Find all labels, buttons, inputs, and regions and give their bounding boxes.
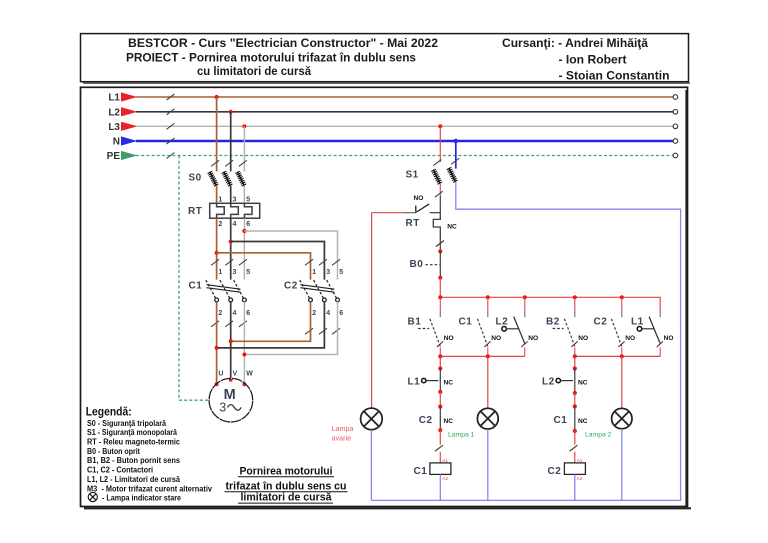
svg-text:N: N — [113, 137, 120, 148]
svg-text:trifazat în dublu sens cu: trifazat în dublu sens cu — [226, 480, 347, 492]
svg-text:L3: L3 — [108, 122, 120, 133]
svg-text:Lampa 2: Lampa 2 — [585, 431, 612, 438]
svg-text:NO: NO — [444, 335, 454, 342]
node below L2 NC — [573, 391, 577, 409]
svg-text:6: 6 — [246, 221, 250, 228]
legend lamp symbol — [88, 492, 181, 502]
fuse S0 pole 3 — [235, 171, 246, 186]
svg-text:L1: L1 — [108, 93, 120, 104]
svg-text:NC: NC — [578, 379, 588, 386]
node below L1 NC — [438, 390, 442, 409]
svg-text:1: 1 — [218, 197, 222, 204]
svg-text:- Lampa indicator stare: - Lampa indicator stare — [102, 493, 182, 502]
contactor C2 NC interlock — [419, 407, 453, 431]
drawing title — [225, 465, 348, 503]
svg-text:B0: B0 — [410, 259, 424, 270]
button B0 stop — [410, 249, 443, 280]
limit switch L2 NC — [542, 369, 588, 394]
legend — [86, 405, 213, 494]
svg-text:S1 - Siguranţă monopolară: S1 - Siguranţă monopolară — [87, 428, 178, 437]
svg-text:Legendă:: Legendă: — [86, 405, 132, 419]
seal-in rail right — [573, 354, 661, 358]
svg-text:5: 5 — [246, 197, 250, 204]
node L3 tap — [242, 124, 246, 171]
svg-text:B1: B1 — [408, 317, 422, 328]
svg-text:Lampa 1: Lampa 1 — [448, 431, 475, 438]
contactor C2 main contacts — [300, 280, 340, 302]
svg-text:NO: NO — [625, 335, 635, 342]
svg-text:NO: NO — [491, 335, 501, 342]
relay RT pin numbers top 1 3 5 — [218, 197, 250, 204]
svg-text:S1: S1 — [406, 169, 419, 180]
svg-text:RT - Releu magneto-termic: RT - Releu magneto-termic — [87, 438, 181, 447]
PE wire to motor — [179, 156, 209, 401]
svg-text:C1: C1 — [189, 280, 203, 291]
svg-text:M3 - Motor trifazat curent al: M3 - Motor trifazat curent alternativ — [87, 484, 213, 493]
contactor C2 label — [284, 280, 298, 291]
svg-text:C2: C2 — [284, 280, 298, 291]
svg-text:S0: S0 — [189, 172, 202, 183]
svg-text:B0 - Buton oprit: B0 - Buton oprit — [87, 447, 140, 456]
schematic frame — [81, 87, 692, 508]
svg-text:- Ion Robert: - Ion Robert — [559, 54, 627, 67]
title block frame — [81, 34, 691, 84]
svg-text:A1: A1 — [442, 458, 448, 463]
button B1 start fwd — [408, 297, 454, 356]
svg-text:L2: L2 — [108, 107, 120, 118]
node RT pin4 / wire to C2 pole2 — [229, 239, 325, 279]
bus N — [113, 136, 678, 147]
svg-text:C1, C2 - Contactori: C1, C2 - Contactori — [87, 466, 153, 475]
svg-text:NC: NC — [447, 224, 457, 231]
svg-text:C2: C2 — [419, 415, 433, 426]
wire slashes above S0 — [211, 160, 247, 166]
svg-text:V: V — [233, 371, 238, 378]
wire C2 pole3 to node W — [242, 302, 337, 357]
svg-text:U: U — [218, 371, 223, 378]
fuse S0 pole 2 — [222, 171, 233, 186]
svg-text:RT: RT — [406, 218, 420, 229]
svg-text:2: 2 — [218, 221, 222, 228]
svg-text:Pornirea motorului: Pornirea motorului — [240, 465, 333, 477]
wire to L1 NC — [438, 356, 442, 370]
svg-text:BESTCOR - Curs "Electrician Co: BESTCOR - Curs "Electrician Constructor"… — [128, 37, 438, 50]
wire S1 to RT NO node — [435, 184, 443, 213]
node L2 tap — [229, 110, 233, 172]
wire RT NO to fault lamp — [371, 213, 373, 408]
button B2 start rev — [546, 297, 588, 356]
svg-text:4: 4 — [233, 221, 237, 228]
wire to lamp 2 — [621, 356, 623, 408]
svg-text:1: 1 — [218, 269, 222, 276]
fuse S0 pole 1 — [208, 171, 219, 186]
Lampa avarie text — [332, 424, 354, 443]
svg-text:PE: PE — [107, 151, 121, 162]
svg-text:6: 6 — [246, 310, 250, 317]
svg-text:A1: A1 — [577, 458, 583, 463]
svg-text:2: 2 — [218, 310, 222, 317]
motor M3 — [209, 378, 253, 422]
svg-text:5: 5 — [339, 269, 343, 276]
svg-text:B1, B2 - Buton pornit sens: B1, B2 - Buton pornit sens — [87, 456, 181, 465]
svg-text:3: 3 — [219, 401, 226, 415]
svg-text:6: 6 — [339, 310, 343, 317]
limit switch L1 NC — [408, 369, 454, 392]
wire slashes below C1 — [211, 321, 247, 327]
contactor C1 NO aux contact — [459, 297, 502, 356]
svg-text:NC: NC — [444, 379, 454, 386]
svg-text:L1: L1 — [408, 376, 421, 387]
wire slash above S1 — [433, 160, 441, 166]
fuse S1 neutral — [447, 167, 458, 182]
relay RT box — [210, 203, 260, 218]
node / Lampa 2 tag — [570, 429, 612, 463]
node / Lampa 1 tag — [435, 428, 475, 463]
svg-text:B2: B2 — [546, 317, 560, 328]
bus L1 — [108, 92, 677, 103]
svg-text:C1: C1 — [414, 466, 428, 477]
wire slashes above contactor poles — [211, 259, 340, 265]
node RT pin6 / wire to C2 pole3 — [242, 229, 337, 280]
svg-text:5: 5 — [246, 269, 250, 276]
svg-text:L1, L2 - Limitatori de cursă: L1, L2 - Limitatori de cursă — [87, 475, 181, 484]
lamp 2 — [612, 408, 632, 500]
svg-text:4: 4 — [233, 310, 237, 317]
svg-text:S0 - Siguranţă tripolară: S0 - Siguranţă tripolară — [87, 419, 167, 428]
svg-text:PROIECT - Pornirea motorului t: PROIECT - Pornirea motorului trifazat în… — [126, 51, 416, 64]
svg-text:NO: NO — [578, 335, 588, 342]
bus L3 — [108, 122, 677, 133]
contactor pin numbers 1 3 5 — [218, 269, 343, 276]
node RT pin2 / wire to C2 pole1 — [215, 251, 311, 280]
svg-text:avarie: avarie — [332, 434, 352, 443]
svg-text:NO: NO — [528, 335, 538, 342]
contactor C1 main contacts — [206, 280, 247, 302]
svg-text:L2: L2 — [496, 317, 509, 328]
wire C1 pole3 to motor W — [243, 302, 245, 385]
relay RT pin numbers bottom 2 4 6 — [218, 221, 250, 228]
svg-text:NC: NC — [578, 418, 588, 425]
coil C1 — [414, 458, 451, 500]
wire RT to C1 (three poles) — [217, 218, 245, 279]
lamp fault — [361, 408, 383, 500]
neutral wire to control rail — [371, 182, 680, 500]
svg-text:limitatori de cursă: limitatori de cursă — [241, 492, 333, 504]
lamp 1 — [477, 408, 498, 500]
limit switch L1 NO — [631, 308, 673, 356]
seal-in rail left — [438, 354, 525, 358]
svg-text:1: 1 — [312, 269, 316, 276]
fuse S1 label — [406, 169, 419, 180]
svg-text:A2: A2 — [577, 476, 583, 481]
wire B0 to control bus — [439, 278, 441, 298]
motor terminal nodes — [215, 378, 247, 387]
svg-text:C1: C1 — [459, 317, 473, 328]
svg-text:NO: NO — [664, 335, 674, 342]
svg-text:C2: C2 — [594, 317, 608, 328]
svg-text:W: W — [246, 371, 253, 378]
wire C1 pole2 to motor V — [230, 302, 232, 380]
contactor C1 NC interlock — [554, 406, 588, 431]
wire C1 pole1 to motor U — [216, 302, 218, 385]
node N control tap — [454, 139, 458, 169]
fuse S0 label — [189, 172, 202, 183]
node L1 tap — [215, 95, 219, 171]
wire to lamp 1 — [487, 356, 489, 408]
svg-text:cu limitatori de cursă: cu limitatori de cursă — [197, 65, 312, 78]
svg-text:Lampa: Lampa — [332, 424, 354, 433]
bus PE — [107, 151, 678, 162]
svg-text:C2: C2 — [548, 466, 562, 477]
svg-text:L1: L1 — [631, 317, 644, 328]
relay RT heater elements — [217, 203, 252, 218]
svg-text:4: 4 — [326, 310, 330, 317]
wire C2 pole2 to node U — [215, 302, 325, 350]
coil C2 — [548, 458, 586, 500]
svg-text:L2: L2 — [542, 376, 555, 387]
title block text — [126, 37, 670, 83]
fuse S1 phase — [431, 169, 442, 184]
svg-text:NO: NO — [414, 195, 424, 202]
wire S0 to RT — [217, 186, 245, 204]
svg-text:Cursanţi: - Andrei Mihăiţă: Cursanţi: - Andrei Mihăiţă — [502, 37, 649, 50]
svg-text:A2: A2 — [442, 476, 448, 481]
contactor pin numbers 2 4 6 — [218, 310, 343, 317]
svg-text:3: 3 — [233, 197, 237, 204]
limit switch L2 NO — [496, 297, 539, 356]
svg-text:3: 3 — [233, 269, 237, 276]
relay RT NO contact — [372, 195, 441, 229]
relay RT label — [188, 206, 202, 217]
svg-text:3: 3 — [326, 269, 330, 276]
motor terminal labels U V W — [218, 371, 253, 378]
wire to L2 NC — [573, 356, 577, 370]
svg-text:RT: RT — [188, 206, 202, 217]
control bus rail — [438, 295, 660, 308]
wire C2 pole1 to node V — [229, 302, 311, 344]
contactor C2 NO aux contact — [594, 297, 636, 356]
node L3 control tap — [438, 124, 442, 162]
wire slashes below C2 — [305, 328, 340, 334]
relay RT NC contact — [433, 213, 457, 251]
contactor C1 label — [189, 280, 203, 291]
svg-text:2: 2 — [312, 310, 316, 317]
svg-text:NC: NC — [444, 418, 454, 425]
wire slash on neutral fuse — [451, 158, 459, 164]
svg-text:- Stoian Constantin: - Stoian Constantin — [559, 70, 670, 83]
bus L2 — [108, 107, 677, 118]
svg-text:C1: C1 — [554, 415, 568, 426]
